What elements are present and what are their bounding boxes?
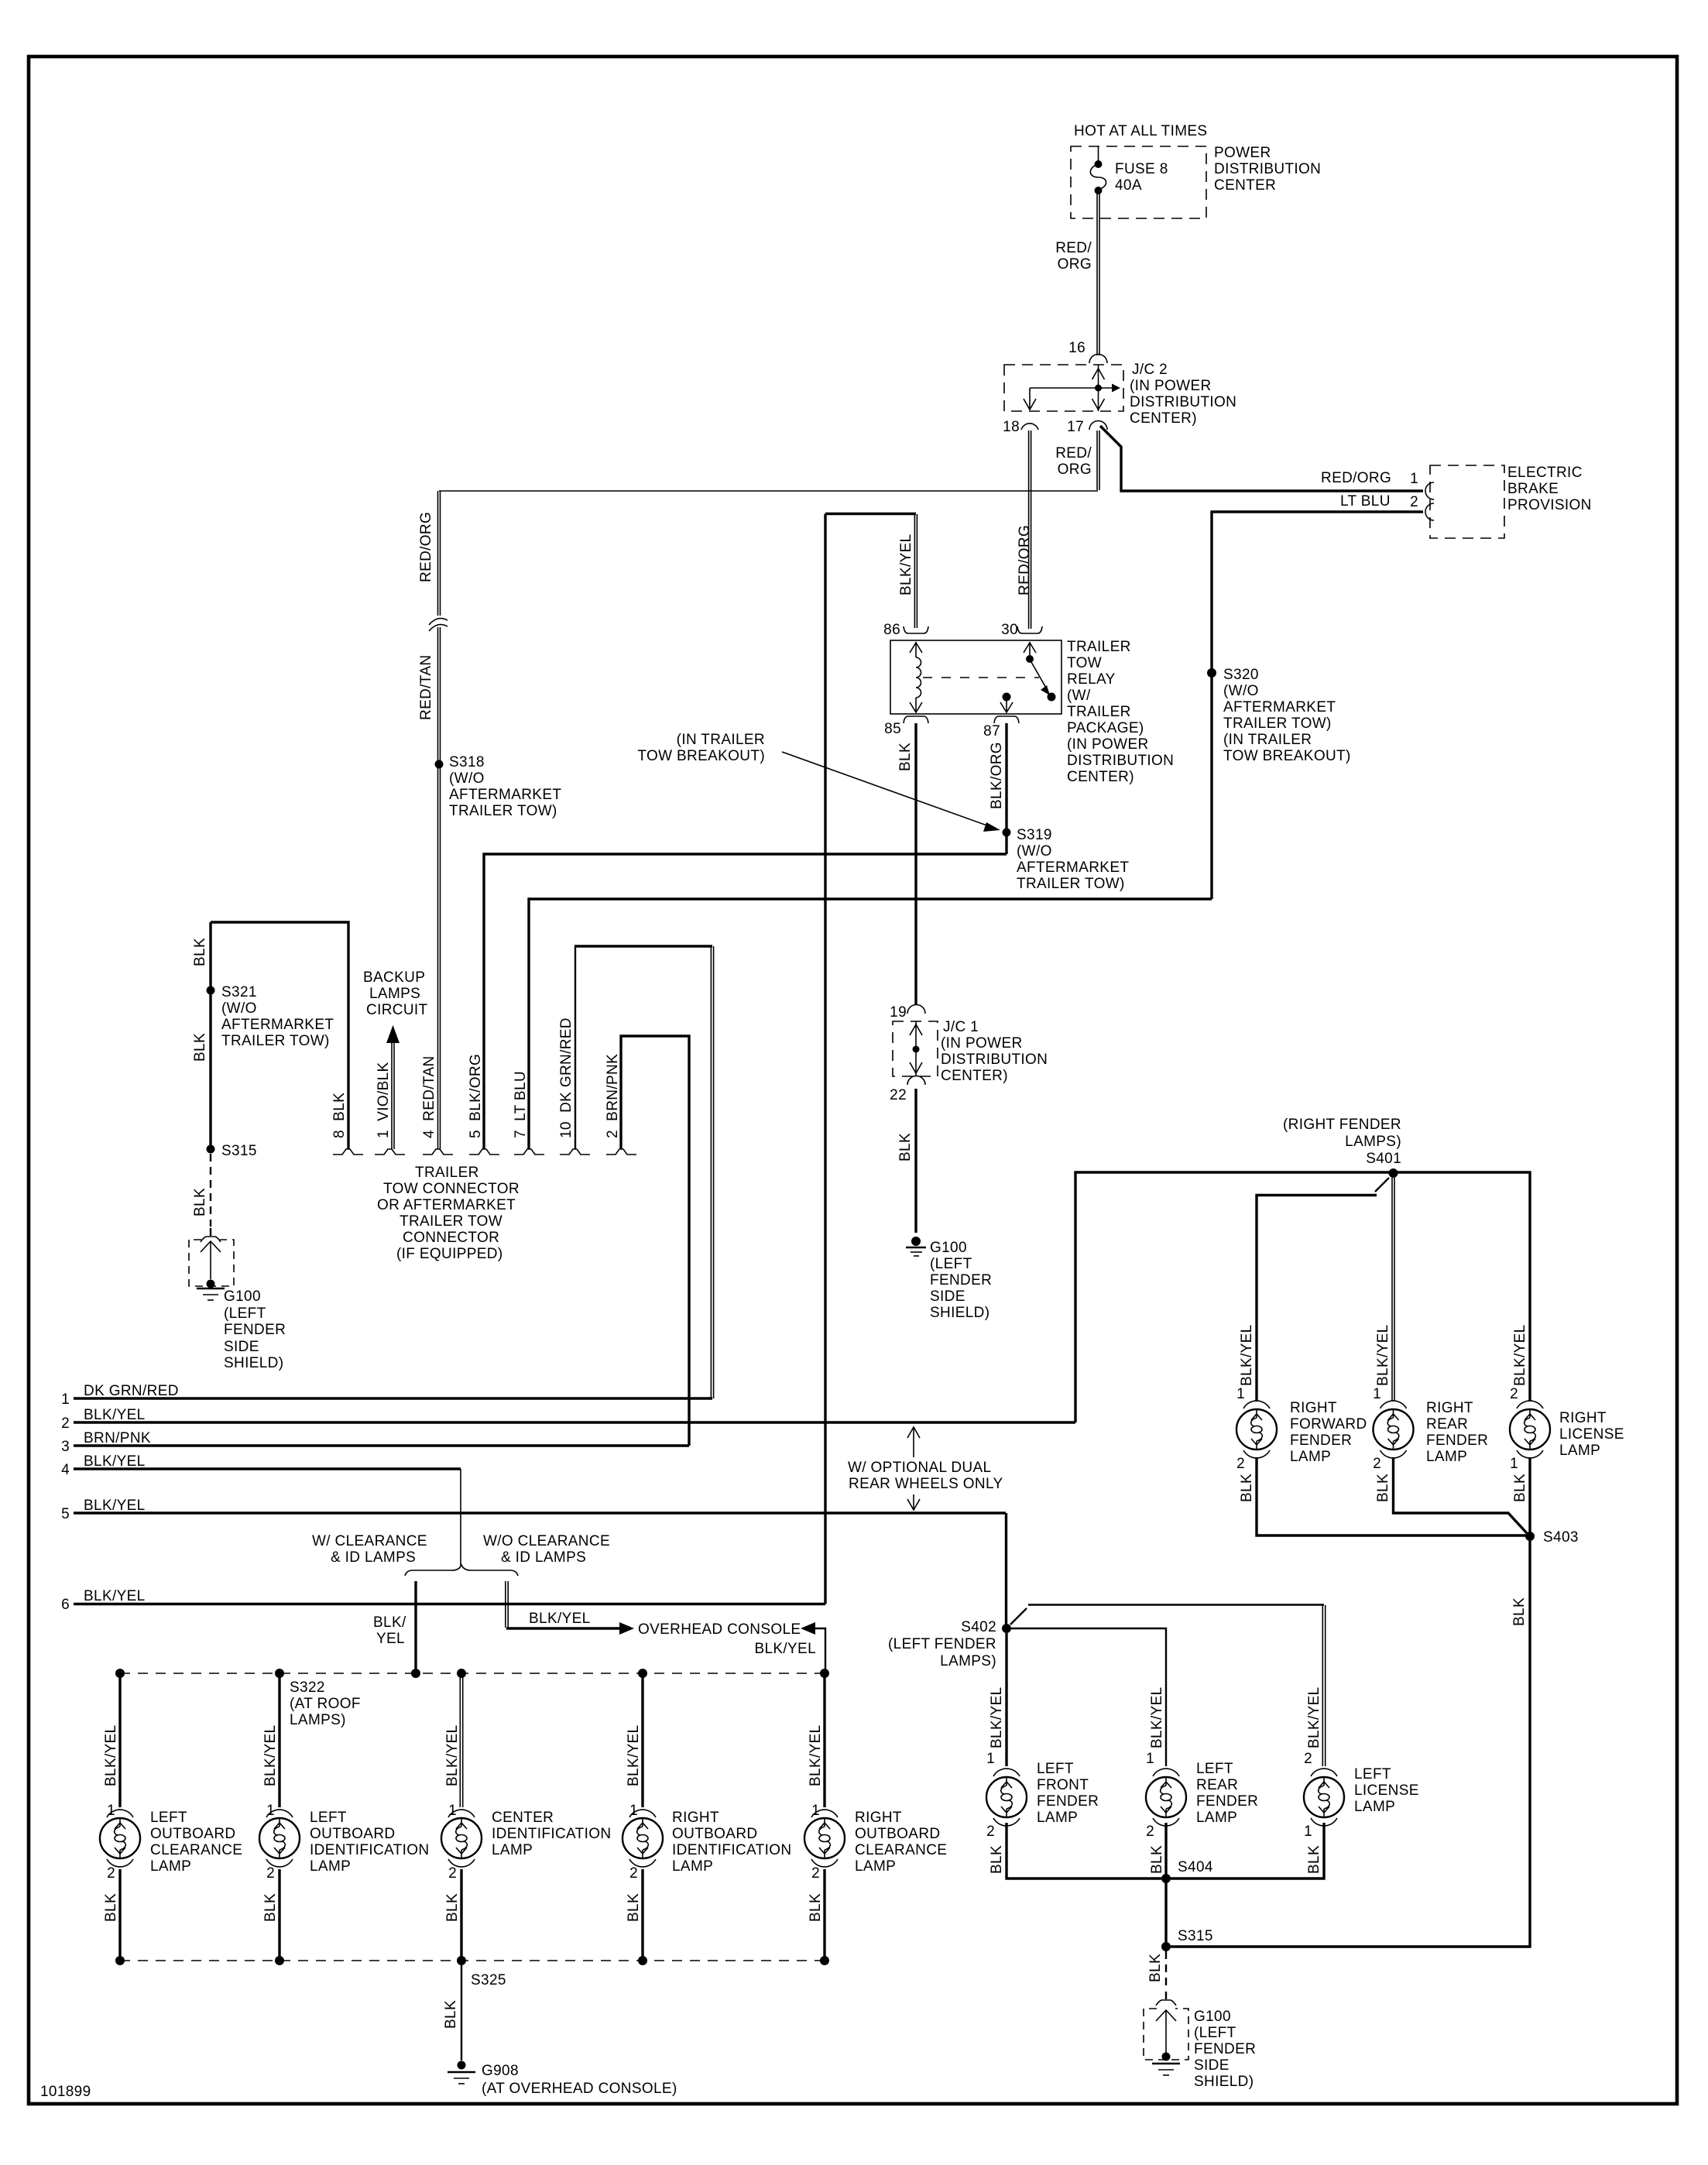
- left front fender lamp label: [1037, 1761, 1099, 1826]
- svg-text:LAMP: LAMP: [310, 1858, 351, 1875]
- svg-text:BACKUP: BACKUP: [363, 969, 425, 986]
- svg-text:(LEFT FENDER: (LEFT FENDER: [888, 1636, 996, 1652]
- wire BLK/YEL w/ clearance branch: [414, 1581, 417, 1673]
- svg-text:87: 87: [983, 723, 1000, 739]
- svg-text:4: 4: [61, 1462, 70, 1478]
- svg-text:BLK/YEL: BLK/YEL: [262, 1724, 279, 1786]
- svg-text:RED/: RED/: [1055, 240, 1092, 256]
- svg-text:10 DK GRN/RED: 10 DK GRN/RED: [558, 1017, 574, 1138]
- svg-text:DK GRN/RED: DK GRN/RED: [84, 1383, 179, 1399]
- pin 1 left license lamp: [1304, 1818, 1337, 1840]
- lamp right outboard identification: [622, 1818, 663, 1858]
- svg-text:FENDER: FENDER: [1290, 1432, 1352, 1449]
- svg-text:S321: S321: [221, 984, 257, 1000]
- lamp left outboard clearance: [100, 1818, 140, 1858]
- svg-text:J/C 2: J/C 2: [1132, 362, 1168, 378]
- svg-text:101899: 101899: [40, 2084, 91, 2100]
- lamp left license: [1304, 1777, 1344, 1817]
- svg-text:8 BLK: 8 BLK: [331, 1093, 348, 1138]
- row wire 6 BLK/YEL: [61, 1588, 825, 1613]
- svg-text:REAR WHEELS ONLY: REAR WHEELS ONLY: [849, 1476, 1003, 1492]
- wire label RED/ORG pin 17: [1055, 445, 1092, 478]
- electric brake provision box: [1430, 465, 1504, 538]
- ground G100 symbol (left fender side shield): [1152, 2053, 1180, 2076]
- svg-text:G100: G100: [224, 1288, 261, 1305]
- wire BLK/ORG horizontal to connector pin 5: [484, 854, 1007, 1149]
- svg-text:CLEARANCE: CLEARANCE: [855, 1842, 947, 1858]
- svg-text:16: 16: [1068, 340, 1086, 356]
- svg-text:OUTBOARD: OUTBOARD: [855, 1826, 940, 1842]
- ground rail junction dots: [115, 1956, 829, 1965]
- svg-text:(IN POWER: (IN POWER: [1130, 378, 1212, 394]
- svg-text:DISTRIBUTION: DISTRIBUTION: [1067, 753, 1174, 769]
- wire BLK/YEL relay pin 86 riser (double): [914, 514, 917, 628]
- svg-text:BLK/YEL: BLK/YEL: [754, 1641, 816, 1657]
- svg-text:18: 18: [1003, 419, 1020, 435]
- svg-text:AFTERMARKET: AFTERMARKET: [1223, 699, 1336, 715]
- wire BLK/YEL w/o clearance branch (double): [506, 1581, 508, 1628]
- wire RED/TAN continues down to connector pin 4 (double): [438, 627, 441, 1149]
- svg-text:LICENSE: LICENSE: [1354, 1782, 1419, 1799]
- svg-text:(RIGHT FENDER: (RIGHT FENDER: [1283, 1117, 1401, 1133]
- svg-text:CONNECTOR: CONNECTOR: [403, 1230, 499, 1246]
- svg-text:BLK/YEL: BLK/YEL: [626, 1724, 642, 1786]
- svg-text:LAMP: LAMP: [1354, 1799, 1395, 1815]
- pin 85 connector: [904, 716, 928, 723]
- pin 2 right license lamp: [1510, 1386, 1543, 1408]
- svg-text:OR AFTERMARKET: OR AFTERMARKET: [377, 1197, 516, 1213]
- lamp left outboard identification: [259, 1818, 300, 1858]
- selection brace: [405, 1565, 518, 1576]
- svg-text:2: 2: [1236, 1456, 1245, 1472]
- svg-text:CENTER: CENTER: [1214, 177, 1276, 194]
- wire BLK relay pin 85 to J/C1 pin 19: [914, 723, 917, 1005]
- svg-text:FENDER: FENDER: [1426, 1432, 1488, 1449]
- relay switch: [1024, 642, 1056, 702]
- wire BLK/YEL long vertical to row 6: [824, 514, 826, 1604]
- wire label BLK/YEL: [373, 1614, 406, 1647]
- G908 label: [482, 2063, 677, 2097]
- wire label RED/ORG: [1055, 240, 1092, 273]
- svg-text:2: 2: [448, 1865, 457, 1882]
- svg-text:(IF EQUIPPED): (IF EQUIPPED): [396, 1246, 503, 1262]
- label W/ CLEARANCE & ID LAMPS: [312, 1533, 427, 1566]
- svg-text:2: 2: [266, 1865, 275, 1882]
- svg-text:BLK/YEL: BLK/YEL: [84, 1588, 146, 1604]
- svg-text:BLK/: BLK/: [373, 1614, 406, 1631]
- pin 87 connector: [994, 716, 1019, 723]
- wire LT BLU brake pin2 to S320 vertical: [1212, 512, 1423, 899]
- svg-text:G908: G908: [482, 2063, 519, 2079]
- ground G100 (left fender side shield): [906, 1237, 926, 1256]
- svg-text:(W/O: (W/O: [1017, 843, 1052, 859]
- svg-text:W/ CLEARANCE: W/ CLEARANCE: [312, 1533, 427, 1549]
- pin 30 connector: [1017, 626, 1042, 633]
- wire BLK/YEL S401 to right forward fender lamp: [1257, 1178, 1389, 1402]
- svg-text:FENDER: FENDER: [930, 1272, 992, 1288]
- lamp right outboard clearance: [804, 1818, 845, 1858]
- svg-text:1: 1: [61, 1391, 70, 1408]
- svg-text:REAR: REAR: [1426, 1416, 1468, 1432]
- roof lamp 5 wires: [823, 1673, 825, 1961]
- electric brake label: [1507, 465, 1592, 513]
- svg-text:CENTER): CENTER): [941, 1068, 1008, 1084]
- svg-text:AFTERMARKET: AFTERMARKET: [1017, 859, 1129, 876]
- wire BLK/YEL S402 to left license lamp: [1010, 1605, 1326, 1767]
- wire RED/ORG thin horizontal to left circuit: [439, 490, 1098, 492]
- svg-text:RIGHT: RIGHT: [1426, 1400, 1473, 1416]
- wire BLK left front fender to S404: [1007, 1823, 1161, 1879]
- wire BRN/PNK riser from row 3: [621, 1036, 689, 1446]
- lamp left rear fender: [1146, 1777, 1186, 1817]
- svg-text:(IN TRAILER: (IN TRAILER: [677, 732, 765, 748]
- svg-text:BLK: BLK: [1511, 1597, 1528, 1626]
- row wire 5 BLK/YEL: [61, 1498, 1006, 1522]
- wire BLK/YEL from overhead console to roof rail: [801, 1622, 825, 1671]
- wire BLK left lamp return loop: [211, 922, 348, 1149]
- pin 2 right forward fender lamp: [1236, 1450, 1270, 1472]
- svg-text:7 LT BLU: 7 LT BLU: [513, 1071, 529, 1138]
- rail junction dots: [115, 1669, 829, 1678]
- wire VIO/BLK connector pin 1 (double): [392, 1043, 394, 1149]
- svg-text:LAMP: LAMP: [492, 1842, 533, 1858]
- svg-text:BLK/YEL: BLK/YEL: [1512, 1324, 1528, 1386]
- wire BLK/ORG relay pin 87 down: [1005, 723, 1007, 854]
- svg-text:BLK/YEL: BLK/YEL: [1149, 1686, 1165, 1748]
- svg-text:BLK/YEL: BLK/YEL: [444, 1724, 461, 1786]
- wire BLK right rear fender to S403: [1394, 1457, 1528, 1533]
- label backup lamps circuit: [363, 969, 428, 1018]
- roof lamp 2 wires: [278, 1673, 280, 1961]
- svg-text:RED/TAN: RED/TAN: [418, 655, 434, 720]
- svg-text:S320: S320: [1223, 667, 1259, 683]
- svg-text:1: 1: [1236, 1386, 1245, 1402]
- svg-text:(LEFT: (LEFT: [224, 1306, 266, 1322]
- svg-text:S325: S325: [471, 1972, 506, 1988]
- svg-text:BRAKE: BRAKE: [1507, 481, 1559, 497]
- wire BLK/YEL S402 to left front fender lamp: [1005, 1633, 1007, 1766]
- svg-text:BLK: BLK: [1147, 1954, 1164, 1982]
- svg-text:OVERHEAD CONSOLE: OVERHEAD CONSOLE: [638, 1621, 801, 1638]
- svg-text:40A: 40A: [1115, 177, 1142, 194]
- svg-text:BLK: BLK: [1375, 1474, 1391, 1502]
- svg-text:S404: S404: [1178, 1859, 1213, 1875]
- svg-text:TRAILER TOW: TRAILER TOW: [400, 1213, 502, 1230]
- splice S319: [1003, 829, 1011, 837]
- wire BLK S403 to S315: [1171, 1541, 1530, 1947]
- relay pin 87 contact: [1000, 693, 1013, 713]
- svg-text:(AT ROOF: (AT ROOF: [290, 1696, 361, 1712]
- svg-text:2: 2: [1410, 494, 1418, 510]
- J/C1 internal wires: [910, 1021, 922, 1076]
- svg-text:S403: S403: [1543, 1529, 1579, 1546]
- svg-text:PROVISION: PROVISION: [1507, 497, 1592, 513]
- svg-text:REAR: REAR: [1196, 1777, 1238, 1793]
- svg-text:BLK/YEL: BLK/YEL: [808, 1724, 824, 1786]
- svg-text:LICENSE: LICENSE: [1559, 1426, 1624, 1443]
- svg-text:AFTERMARKET: AFTERMARKET: [221, 1017, 334, 1033]
- svg-text:LEFT: LEFT: [310, 1810, 347, 1826]
- svg-text:TRAILER: TRAILER: [415, 1165, 479, 1181]
- svg-text:FENDER: FENDER: [1194, 2041, 1256, 2057]
- junction block J/C1 pin 19: [890, 1004, 925, 1021]
- splice S402: [1002, 1624, 1011, 1633]
- svg-text:FORWARD: FORWARD: [1290, 1416, 1367, 1432]
- left outboard clearance lamp label: [150, 1810, 242, 1875]
- svg-text:1: 1: [986, 1751, 995, 1767]
- svg-text:2: 2: [811, 1865, 820, 1882]
- J/C1 pin 22: [890, 1076, 925, 1104]
- svg-text:W/O CLEARANCE: W/O CLEARANCE: [483, 1533, 610, 1549]
- G100 ground arrow: [1156, 2010, 1176, 2053]
- svg-text:19: 19: [890, 1004, 907, 1021]
- svg-text:RED/ORG: RED/ORG: [418, 512, 434, 582]
- svg-text:BLK/YEL: BLK/YEL: [1239, 1324, 1255, 1386]
- lamp right rear fender: [1374, 1409, 1414, 1450]
- svg-text:BLK/YEL: BLK/YEL: [84, 1453, 146, 1470]
- left license lamp label: [1354, 1766, 1419, 1815]
- svg-text:LAMP: LAMP: [1290, 1449, 1331, 1465]
- roof lamps ground rail (dashed): [120, 1960, 825, 1961]
- svg-text:FENDER: FENDER: [224, 1322, 286, 1338]
- pin 2 connectors roof lamps: [107, 1859, 838, 1867]
- label (IN TRAILER TOW BREAKOUT): [637, 732, 765, 764]
- svg-text:RELAY: RELAY: [1067, 671, 1116, 688]
- svg-text:LAMP: LAMP: [150, 1858, 191, 1875]
- pin 1 left rear fender lamp: [1146, 1751, 1179, 1776]
- splice S318: [435, 760, 444, 769]
- svg-text:LAMP: LAMP: [1037, 1810, 1078, 1826]
- svg-text:BLK/YEL: BLK/YEL: [84, 1407, 146, 1423]
- svg-text:& ID LAMPS: & ID LAMPS: [331, 1549, 416, 1566]
- S401 label: [1283, 1117, 1401, 1167]
- svg-text:BLK/YEL: BLK/YEL: [1306, 1686, 1322, 1748]
- svg-text:IDENTIFICATION: IDENTIFICATION: [310, 1842, 429, 1858]
- roof lamp 1 wires: [118, 1673, 121, 1961]
- svg-text:TOW BREAKOUT): TOW BREAKOUT): [1223, 748, 1351, 764]
- svg-text:TRAILER TOW): TRAILER TOW): [1017, 876, 1125, 892]
- wire BLK/YEL horizontal jog: [825, 513, 916, 515]
- svg-text:BLK/YEL: BLK/YEL: [898, 534, 914, 595]
- wire BLK/YEL row 5 to S402: [1005, 1513, 1007, 1628]
- pin 1 labels roof lamps: [107, 1803, 820, 1819]
- svg-text:BLK/YEL: BLK/YEL: [529, 1611, 591, 1627]
- svg-text:2: 2: [986, 1824, 995, 1840]
- svg-text:S402: S402: [961, 1619, 996, 1635]
- svg-text:CENTER): CENTER): [1130, 410, 1197, 427]
- svg-text:(W/O: (W/O: [1223, 683, 1259, 699]
- svg-text:BLK: BLK: [103, 1893, 119, 1922]
- svg-text:LAMP: LAMP: [1196, 1810, 1237, 1826]
- G100 label: [930, 1240, 992, 1321]
- svg-text:LEFT: LEFT: [1354, 1766, 1391, 1782]
- svg-text:POWER: POWER: [1214, 145, 1271, 161]
- svg-text:RED/: RED/: [1055, 445, 1092, 461]
- svg-text:LAMP: LAMP: [1559, 1443, 1600, 1459]
- svg-text:LAMPS: LAMPS: [369, 986, 420, 1002]
- svg-text:(W/: (W/: [1067, 688, 1091, 704]
- svg-text:BLK: BLK: [626, 1893, 642, 1922]
- pin 1 electric brake: [1410, 471, 1434, 499]
- svg-text:FENDER: FENDER: [1196, 1793, 1258, 1810]
- svg-text:BLK: BLK: [989, 1845, 1005, 1874]
- wire BLK pin 22 to G100: [914, 1089, 917, 1233]
- svg-text:BLK: BLK: [897, 1133, 914, 1161]
- svg-text:S315: S315: [1178, 1928, 1213, 1944]
- svg-text:(LEFT: (LEFT: [1194, 2025, 1236, 2041]
- svg-text:BLK: BLK: [1306, 1845, 1322, 1874]
- svg-text:86: 86: [883, 622, 900, 638]
- svg-text:1: 1: [1304, 1824, 1312, 1840]
- svg-text:ORG: ORG: [1058, 461, 1092, 478]
- pin 2 electric brake: [1410, 494, 1434, 520]
- S319 label: [1017, 827, 1129, 892]
- svg-text:LAMP: LAMP: [672, 1858, 713, 1875]
- fuse F8 40A: [1090, 146, 1106, 194]
- junction block J/C2 box: [1004, 365, 1123, 411]
- right license lamp label: [1559, 1410, 1624, 1459]
- svg-text:HOT AT ALL TIMES: HOT AT ALL TIMES: [1074, 123, 1207, 139]
- wire BLK left rear fender to S404: [1164, 1823, 1167, 1879]
- svg-text:(W/O: (W/O: [449, 770, 485, 787]
- pin 1 right license lamp: [1510, 1450, 1543, 1472]
- J/C2 label: [1130, 362, 1236, 427]
- svg-text:FRONT: FRONT: [1037, 1777, 1089, 1793]
- wire RED/ORG J/C2 pin 18 to relay pin 30 (double): [1029, 431, 1031, 629]
- svg-text:(W/O: (W/O: [221, 1000, 257, 1017]
- svg-text:LAMPS): LAMPS): [290, 1712, 346, 1728]
- svg-text:G100: G100: [930, 1240, 967, 1256]
- svg-text:BLK: BLK: [1149, 1845, 1165, 1874]
- svg-text:85: 85: [884, 721, 901, 737]
- pin 1 connectors roof lamps: [107, 1810, 838, 1817]
- pin 2 right rear fender lamp: [1373, 1450, 1406, 1472]
- svg-text:LAMP: LAMP: [1426, 1449, 1467, 1465]
- wire BLK/YEL S402 to left rear fender lamp: [1011, 1628, 1166, 1766]
- splice S315: [207, 1145, 215, 1154]
- svg-text:CLEARANCE: CLEARANCE: [150, 1842, 242, 1858]
- svg-text:BLK: BLK: [444, 1893, 461, 1922]
- svg-text:BLK: BLK: [1239, 1474, 1255, 1502]
- wire BLK dashed to ground: [210, 1154, 211, 1227]
- svg-text:CENTER: CENTER: [492, 1810, 554, 1826]
- svg-text:CENTER): CENTER): [1067, 769, 1134, 785]
- left rear fender lamp label: [1196, 1761, 1258, 1826]
- wire BLK/YEL S401 to right rear fender lamp (double): [1392, 1178, 1394, 1402]
- svg-text:BLK: BLK: [262, 1893, 279, 1922]
- svg-text:BLK/YEL: BLK/YEL: [1375, 1324, 1391, 1386]
- arrow to backup lamps: [386, 1025, 400, 1043]
- svg-text:DISTRIBUTION: DISTRIBUTION: [1130, 394, 1236, 410]
- svg-text:OUTBOARD: OUTBOARD: [150, 1826, 235, 1842]
- splice S403: [1525, 1532, 1535, 1541]
- wire labels BLK roof lamps: [103, 1893, 824, 1922]
- svg-text:2: 2: [61, 1415, 70, 1432]
- svg-text:LEFT: LEFT: [1037, 1761, 1074, 1777]
- callout arrow to S319: [782, 752, 1000, 832]
- roof lamp 4 wires: [641, 1673, 643, 1961]
- right rear fender lamp label: [1426, 1400, 1488, 1465]
- ground G100 connector box (left): [189, 1240, 234, 1286]
- row wire 1 DK GRN/RED: [61, 1383, 712, 1408]
- svg-text:& ID LAMPS: & ID LAMPS: [501, 1549, 586, 1566]
- row wire 2 BLK/YEL: [61, 1407, 1075, 1432]
- fuse value label: [1115, 161, 1168, 194]
- svg-text:S319: S319: [1017, 827, 1052, 843]
- wire RED/ORG pin 17 down (double): [1097, 431, 1099, 490]
- pin 17 connector: [1089, 421, 1107, 431]
- svg-text:RIGHT: RIGHT: [1559, 1410, 1607, 1426]
- pin 2 left license lamp: [1304, 1751, 1337, 1776]
- svg-text:2: 2: [1510, 1386, 1518, 1402]
- pin 16 connector: [1089, 355, 1107, 364]
- power distribution center box (fuse box): [1071, 146, 1206, 218]
- splice S320: [1207, 668, 1216, 678]
- pin 1 right forward fender lamp: [1236, 1386, 1270, 1408]
- svg-text:LT BLU: LT BLU: [1340, 493, 1391, 510]
- pin 2 left rear fender lamp: [1146, 1818, 1179, 1840]
- lamp left front fender: [986, 1777, 1027, 1817]
- svg-text:FUSE 8: FUSE 8: [1115, 161, 1168, 177]
- svg-text:BLK: BLK: [192, 1033, 208, 1062]
- svg-text:TOW CONNECTOR: TOW CONNECTOR: [383, 1181, 520, 1197]
- svg-text:DISTRIBUTION: DISTRIBUTION: [1214, 161, 1321, 177]
- lamp right forward fender: [1236, 1409, 1277, 1450]
- wire BLK S325 to G908: [461, 1961, 462, 2060]
- svg-text:1 VIO/BLK: 1 VIO/BLK: [376, 1062, 392, 1138]
- svg-text:1: 1: [1146, 1751, 1154, 1767]
- svg-text:RIGHT: RIGHT: [855, 1810, 902, 1826]
- svg-text:(IN POWER: (IN POWER: [1067, 736, 1149, 753]
- svg-text:SHIELD): SHIELD): [930, 1305, 989, 1321]
- S320 label: [1223, 667, 1351, 764]
- relay coil: [910, 642, 922, 712]
- svg-text:6: 6: [61, 1597, 70, 1613]
- wire BLK/YEL to overhead console: [506, 1622, 634, 1635]
- wire RED/ORG fuse to J/C2 pin 16 (double): [1097, 190, 1099, 355]
- G100 label (right): [1194, 2009, 1256, 2090]
- S402 label: [888, 1619, 996, 1669]
- label w/ optional dual rear wheels only: [848, 1427, 1003, 1510]
- svg-text:1: 1: [1510, 1456, 1518, 1472]
- svg-text:BLK: BLK: [808, 1893, 824, 1922]
- roof lamp 3 wires (double top): [460, 1673, 462, 1961]
- svg-text:TOW: TOW: [1067, 655, 1102, 671]
- pin 2 labels roof lamps: [107, 1865, 820, 1882]
- svg-text:FENDER: FENDER: [1037, 1793, 1099, 1810]
- wire BLK right forward fender to S403: [1257, 1457, 1526, 1535]
- right forward fender lamp label: [1290, 1400, 1367, 1465]
- svg-text:ORG: ORG: [1058, 256, 1092, 273]
- wire DK GRN/RED riser from row 1: [574, 946, 714, 1398]
- pin 1 right rear fender lamp: [1373, 1386, 1406, 1408]
- svg-text:(IN POWER: (IN POWER: [941, 1035, 1023, 1052]
- center identification lamp label: [492, 1810, 611, 1858]
- wire BLK left license to S404: [1171, 1823, 1324, 1879]
- wire BLK S321 branch: [209, 922, 211, 1151]
- svg-text:OUTBOARD: OUTBOARD: [310, 1826, 395, 1842]
- svg-text:IDENTIFICATION: IDENTIFICATION: [672, 1842, 791, 1858]
- svg-text:5 BLK/ORG: 5 BLK/ORG: [468, 1054, 484, 1138]
- svg-text:PACKAGE): PACKAGE): [1067, 720, 1144, 736]
- splice S315 (right): [1161, 1942, 1171, 1951]
- J/C2 internal wires: [1024, 365, 1120, 411]
- left outboard identification lamp label: [310, 1810, 429, 1875]
- pin 2 left front fender lamp: [986, 1818, 1020, 1840]
- G100 ground arrow: [201, 1241, 221, 1279]
- svg-text:J/C 1: J/C 1: [943, 1019, 979, 1035]
- wire BLK S404 to S315: [1164, 1879, 1167, 1947]
